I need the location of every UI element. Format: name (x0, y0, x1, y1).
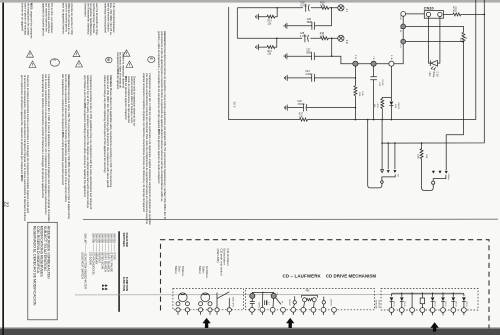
wire C25 return (287, 8, 332, 26)
motor M2 pins (199, 308, 203, 312)
wire socket stair (433, 175, 446, 181)
switch function table header rule (118, 231, 120, 311)
svg-text:CD DRIVE MECHANISM: CD DRIVE MECHANISM (326, 274, 377, 279)
svg-text:C25: C25 (307, 19, 312, 21)
LED D10 (430, 60, 437, 66)
svg-text:7 E: 7 E (372, 56, 374, 60)
connector pin 3 ch2 (338, 35, 344, 41)
svg-text:4,7/50: 4,7/50 (300, 5, 307, 7)
pin row contact 1 (353, 61, 358, 66)
node rail D11 (391, 119, 393, 121)
svg-text:LED: LED (428, 72, 431, 77)
dotted box switches (246, 289, 375, 310)
node R11 out (483, 14, 485, 16)
svg-text:C34: C34 (305, 71, 310, 73)
node R12 out (463, 41, 465, 43)
node junction ch2 out (331, 38, 333, 40)
node rail pin1 (355, 119, 357, 121)
warning triangles E block (123, 50, 133, 68)
wire pin1 column (354, 66, 356, 119)
svg-text:C27: C27 (306, 50, 311, 52)
svg-text:1S133: 1S133 (454, 301, 456, 306)
wire channel 2 (237, 37, 337, 39)
svg-text:Componentes segun IEC o VDE! E: Componentes segun IEC o VDE! En caso de … (142, 73, 152, 225)
circled E symbol (148, 57, 155, 63)
connector pin 4 ch1 (338, 5, 344, 11)
svg-text:R17: R17 (299, 114, 304, 116)
svg-text:SW505: SW505 (288, 299, 290, 306)
node rail R20 (382, 119, 384, 121)
key diode 6 (442, 293, 444, 307)
motor M1 disc (178, 293, 187, 302)
test pin 5.90V (401, 12, 406, 17)
arrow down plug 1 (432, 171, 435, 174)
node junction ch1 out (331, 7, 333, 9)
dotted box key matrix (381, 288, 478, 310)
ground C34 (284, 75, 287, 81)
connection arrow 1 (202, 318, 210, 328)
svg-text:I: I (53, 60, 57, 61)
svg-text:1S133: 1S133 (397, 102, 399, 109)
svg-text:1S133: 1S133 (434, 301, 436, 306)
svg-text:CN10: CN10 (424, 7, 434, 11)
wire channel bracket (236, 8, 238, 39)
wire rail long drop (368, 120, 382, 188)
wire contact tie (252, 292, 273, 307)
wire long vertical from R11 (382, 0, 484, 143)
svg-text:680P: 680P (306, 52, 312, 54)
ground C29 (284, 105, 287, 111)
svg-text:3 R: 3 R (345, 40, 348, 44)
capacitor C26 (306, 4, 310, 12)
svg-text:22: 22 (3, 202, 9, 208)
svg-text:0,1/50: 0,1/50 (381, 79, 383, 86)
wire C29 (287, 107, 355, 109)
svg-text:15 V: 15 V (233, 101, 237, 108)
wire arrow column 1 (381, 120, 383, 170)
separator line (83, 218, 498, 220)
wire C27 return (287, 38, 332, 56)
svg-text:(SW LMT): (SW LMT) (232, 297, 234, 307)
wire shunt ch2 (258, 38, 276, 47)
wire pin 1.9 feed (406, 41, 464, 43)
node C27 tap (331, 55, 333, 57)
dotted box motors (173, 289, 244, 310)
svg-text:SW501: SW501 (258, 302, 260, 309)
key diode 2 (401, 293, 403, 307)
key matrix pins row (389, 308, 394, 313)
svg-text:Durante toda la reparacion obs: Durante toda la reparacion observar las … (124, 76, 137, 127)
socket circle (432, 181, 435, 184)
resistor R20 (381, 99, 384, 109)
node rail drop (367, 119, 369, 121)
capacitor C31 (370, 77, 377, 80)
ground C25 (284, 23, 287, 29)
circled I symbol (50, 59, 59, 66)
warning triangles GB block (73, 50, 83, 67)
test pin 1.15V (401, 24, 406, 29)
wire 15V rail (229, 7, 476, 120)
resistor R18 (421, 142, 423, 144)
wire long vertical B+ (475, 0, 477, 120)
svg-text:CD – LAUFWERK: CD – LAUFWERK (283, 274, 322, 279)
wire C34 (287, 77, 355, 79)
svg-text:E: E (149, 58, 153, 60)
resistor R14 (267, 46, 275, 49)
warning triangles I block (27, 51, 37, 68)
resistor R16 (320, 37, 328, 40)
key wire 3 (411, 293, 413, 307)
wire pin2 column (373, 66, 375, 119)
capacitor C25 (312, 22, 315, 30)
pin row contact 3 (389, 61, 394, 66)
arrow down plug 2 (438, 171, 441, 174)
test pin 1.9V (401, 39, 406, 44)
svg-text:5 +B: 5 +B (390, 55, 392, 60)
switch contact A (250, 293, 255, 298)
key diode 1 (390, 297, 394, 301)
resistor R12 (462, 32, 465, 42)
wire pin3 column (382, 66, 391, 119)
key diode 7 (452, 293, 454, 307)
svg-text:4 L: 4 L (345, 9, 348, 13)
svg-text:C29: C29 (298, 101, 303, 103)
svg-text:3609-32K: 3609-32K (375, 300, 377, 310)
motor M2 slide (201, 293, 210, 302)
switch pins row (250, 307, 255, 312)
svg-text:C28: C28 (300, 33, 305, 35)
capacitor C28 (305, 34, 309, 42)
svg-text:470/16: 470/16 (298, 104, 306, 106)
arrow down connector (445, 171, 448, 174)
svg-text:0,0047: 0,0047 (305, 74, 313, 76)
bottom scanner strip (0, 329, 500, 335)
resistor R19 (354, 86, 357, 96)
wire R12 feed (406, 26, 464, 32)
switch contact B with lever (271, 293, 276, 298)
svg-text:R13: R13 (268, 21, 273, 23)
wire CN10 pin drops (429, 17, 440, 63)
svg-text:5-MHz: 5-MHz (447, 174, 449, 180)
capacitor C27 (312, 52, 315, 60)
ground C27 (284, 53, 287, 59)
svg-text:1S133: 1S133 (403, 301, 405, 306)
CD drive mechanism dashed border (161, 240, 490, 329)
svg-text:SCHALTERSWITCHES: SCHALTERSWITCHES (122, 233, 129, 247)
jack circle 1 (293, 301, 296, 304)
wire stair to arrow (446, 42, 463, 170)
wire channel 1 (237, 7, 337, 9)
node rail pin2 (373, 119, 375, 121)
svg-text:4,7/50: 4,7/50 (300, 36, 307, 38)
node junction ch1 (276, 7, 278, 9)
diamond connector (380, 180, 383, 184)
svg-text:Busy-: Busy- (432, 72, 435, 79)
svg-text:FUNKTIONFUNCTION: FUNKTIONFUNCTION (122, 277, 129, 291)
key matrix top wire (392, 293, 464, 296)
resistor R15 (321, 6, 329, 9)
left page edge line (2, 3, 4, 335)
connection arrow 3 (430, 322, 438, 332)
capacitor C29 (304, 104, 307, 112)
svg-text:criterios de securite et VDE08: criterios de securite et VDE0860 IEC 65 … (61, 3, 74, 35)
capacitor C34 (312, 74, 315, 82)
svg-text:Components according to IEC or: Components according to IEC or VDE guide… (83, 75, 93, 210)
svg-text:1S133: 1S133 (393, 301, 395, 306)
svg-text:680P: 680P (307, 22, 313, 24)
resistor R13 (267, 15, 275, 18)
svg-text:R16: R16 (320, 33, 325, 35)
svg-text:C26: C26 (300, 3, 305, 5)
wire common bus (75, 294, 464, 296)
svg-text:R15: R15 (320, 2, 325, 4)
ground ch1 shunt (256, 14, 259, 20)
node junction ch2 (276, 38, 278, 40)
wire arrow column 3 (394, 143, 396, 169)
node C29 tap (355, 107, 357, 109)
svg-text:Attention: Please observe the: Attention: Please observe the applicable… (103, 75, 113, 188)
ground ch2 shunt (256, 44, 259, 50)
wire to pins row (332, 16, 404, 63)
key diode 5 (432, 293, 434, 307)
node C34 tap (355, 77, 357, 79)
svg-text:4 die Sicherheitshinweisebzw.: 4 die Sicherheitshinweisebzw. VDE 0860 /… (103, 3, 116, 36)
wire diamond stair (382, 174, 395, 180)
diode D11 (390, 102, 394, 106)
svg-text:4T-K23-1: 4T-K23-1 (378, 300, 380, 309)
svg-text:D 10: D 10 (436, 72, 439, 78)
arrow open connector (381, 170, 384, 173)
connection arrow 2 (286, 318, 294, 328)
pin row contact 2 (371, 61, 376, 66)
svg-text:1S133: 1S133 (465, 301, 467, 306)
alterations reserved box (28, 222, 57, 319)
circled GB symbol (106, 57, 112, 63)
svg-text:1S133: 1S133 (444, 301, 446, 306)
wire arrow column 2 (387, 143, 389, 169)
motor M1 pins (176, 308, 180, 312)
switch SW LMT (217, 292, 229, 308)
wire shunt ch1 (258, 8, 277, 17)
connector CN10 (406, 13, 425, 15)
top scanner strip (0, 0, 500, 3)
resistor R17 (300, 118, 308, 121)
key diode 8 (463, 297, 465, 308)
jack circle 2 (322, 301, 325, 304)
svg-text:SW508: SW508 (330, 299, 332, 306)
resistor R11 (444, 13, 485, 15)
svg-text:D'9 au IEC. Les remplace-ments: D'9 au IEC. Les remplace-ments internes … (41, 3, 54, 37)
svg-text:R14: R14 (268, 51, 273, 53)
capacitor 4.7 (264, 300, 266, 305)
svg-text:6 CL: 6 CL (354, 55, 356, 60)
svg-text:GB: GB (107, 58, 110, 62)
key jumper 4 (421, 293, 423, 307)
